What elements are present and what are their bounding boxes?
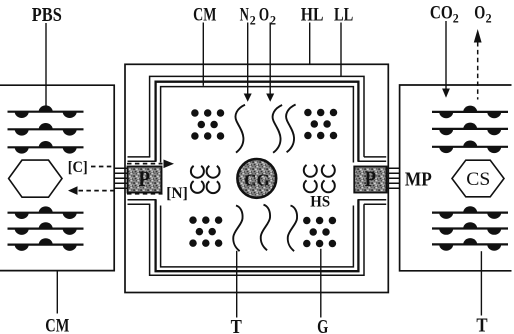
squiggle bottom 3	[288, 206, 297, 252]
membrane row R1	[432, 106, 508, 119]
membrane row L2	[8, 123, 84, 136]
pump P right	[354, 166, 386, 193]
svg-text:MP: MP	[405, 168, 432, 190]
membrane row L3	[8, 141, 84, 154]
dashed line [N] left segment	[79, 190, 114, 192]
pump P left	[128, 166, 162, 193]
membrane row L1	[8, 105, 84, 118]
svg-text:LL: LL	[334, 4, 353, 25]
svg-text:T: T	[476, 315, 488, 334]
dot cluster TL	[191, 109, 224, 140]
dashed line [N] under pump	[127, 193, 163, 195]
chamber wall C	[161, 87, 354, 267]
svg-text:HS: HS	[310, 193, 330, 210]
arrowhead [N] left	[68, 186, 78, 195]
G line	[320, 249, 322, 318]
svg-text:G: G	[317, 316, 329, 334]
cell arcs left group	[191, 166, 220, 193]
svg-text:CG: CG	[244, 170, 270, 189]
svg-text:CS: CS	[466, 169, 490, 190]
T right line	[480, 251, 482, 315]
port lines right bottom	[358, 200, 387, 205]
svg-text:2: 2	[453, 11, 459, 26]
svg-text:2: 2	[486, 11, 492, 26]
chamber outer box	[125, 64, 388, 292]
HL line	[309, 23, 311, 64]
dot cluster BL	[189, 216, 222, 247]
squiggle top 1	[235, 105, 245, 153]
svg-text:PBS: PBS	[32, 4, 62, 26]
svg-text:O: O	[474, 3, 485, 24]
membrane row R5	[432, 222, 508, 235]
dashed line [C] over pump	[127, 163, 163, 165]
dashed line [C] left segment	[91, 166, 114, 168]
svg-text:[N]: [N]	[166, 185, 188, 202]
CO2 arrow	[445, 21, 447, 90]
svg-text:[C]: [C]	[68, 159, 88, 176]
squiggle bottom 1	[233, 206, 242, 252]
svg-text:N: N	[240, 4, 249, 25]
membrane stack right	[387, 168, 399, 188]
membrane row L4	[8, 206, 84, 219]
svg-text:P: P	[138, 166, 150, 191]
right reservoir box	[400, 85, 512, 271]
membrane row R2	[432, 123, 508, 136]
hexagon left	[9, 160, 62, 197]
membrane row L6	[8, 238, 84, 251]
arrowhead [C] right	[164, 160, 175, 169]
hexagon CS	[452, 160, 504, 197]
port lines left top	[128, 157, 157, 161]
cell arcs right group	[304, 165, 335, 192]
O2 dashed arrow up	[477, 42, 479, 100]
dot cluster BR	[303, 217, 336, 248]
svg-text:HL: HL	[301, 4, 324, 25]
membrane stack left	[115, 168, 127, 188]
chamber wall B	[156, 82, 359, 272]
port lines left bottom	[128, 200, 157, 205]
O2 arrow	[269, 23, 271, 95]
PBS line	[45, 23, 47, 106]
svg-text:T: T	[231, 316, 243, 334]
dot cluster TR	[304, 109, 337, 140]
membrane row R4	[432, 206, 508, 219]
left reservoir box	[0, 85, 114, 270]
svg-text:2: 2	[250, 12, 256, 27]
CM top line	[202, 23, 204, 86]
svg-text:CM: CM	[193, 4, 216, 25]
squiggle top 3	[286, 105, 296, 153]
N2 arrow	[247, 23, 249, 95]
CM bottom line	[56, 272, 58, 314]
svg-text:O: O	[259, 4, 269, 25]
membrane row R3	[432, 141, 508, 154]
squiggle bottom 2	[261, 205, 270, 251]
membrane row R6	[432, 238, 508, 251]
membrane row L5	[8, 222, 84, 235]
chamber wall A	[150, 76, 364, 275]
LL line	[340, 23, 342, 77]
port lines right top	[358, 157, 387, 161]
T center line	[236, 251, 238, 318]
squiggle top 2	[273, 105, 283, 153]
CG circle	[237, 159, 276, 198]
svg-text:CO: CO	[430, 3, 453, 24]
svg-text:CM: CM	[45, 316, 69, 334]
svg-text:P: P	[365, 166, 377, 191]
